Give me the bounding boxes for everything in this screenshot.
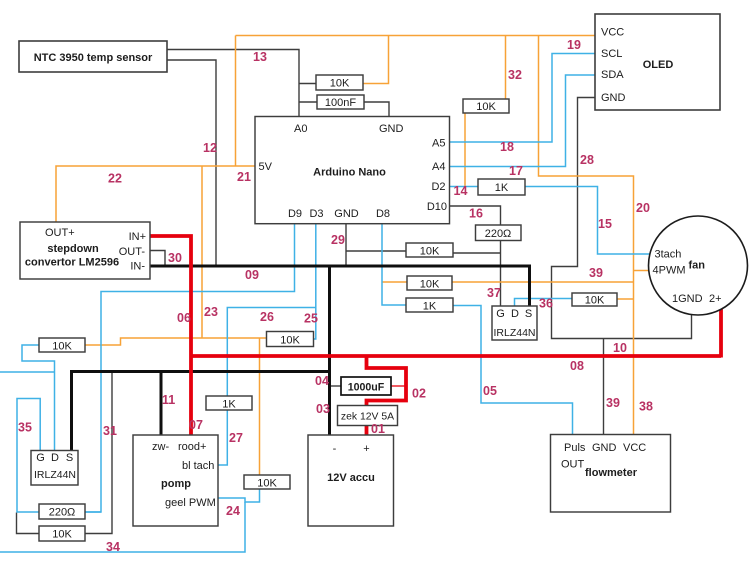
svg-text:1K: 1K [222, 399, 236, 411]
ground drop to 12V accu minus (thick black) [328, 266, 331, 435]
wire 23 orange drop from 5V line [201, 166, 203, 338]
wire 26 D9 down-left-down to 220ohm right (blue) [85, 224, 295, 512]
wire 02 +12V loop around 1000uF to zekering (thick red) [367, 356, 407, 406]
svg-text:11: 11 [162, 393, 175, 407]
svg-text:D: D [511, 308, 519, 320]
wire 29 GND branch to 10K left [346, 250, 406, 252]
svg-text:GND: GND [379, 123, 404, 135]
svg-text:1GND: 1GND [672, 293, 703, 305]
svg-text:10K: 10K [52, 341, 72, 353]
svg-text:10: 10 [613, 341, 627, 355]
svg-text:convertor LM2596: convertor LM2596 [25, 257, 119, 269]
svg-text:31: 31 [103, 424, 117, 438]
wire 32 orange rail branch to 10K top [505, 36, 507, 100]
svg-text:zek 12V 5A: zek 12V 5A [341, 412, 394, 423]
svg-text:4PWM: 4PWM [653, 265, 686, 277]
Arduino Nano U1 [255, 117, 450, 224]
svg-text:zw-: zw- [152, 441, 169, 453]
svg-text:10K: 10K [476, 101, 496, 113]
svg-text:Arduino Nano: Arduino Nano [313, 167, 386, 179]
svg-text:09: 09 [245, 268, 259, 282]
svg-text:G: G [496, 308, 505, 320]
svg-text:D9: D9 [288, 208, 302, 220]
svg-text:02: 02 [412, 387, 426, 401]
svg-text:OLED: OLED [643, 59, 674, 71]
wire orange stub 10K right to VCC vertical [617, 298, 634, 300]
svg-text:IRLZ44N: IRLZ44N [34, 469, 76, 481]
wire 04 capacitor 1000uF left lead to ground drop [331, 385, 341, 387]
wire 18 OLED SDA to A4 (blue) [450, 75, 596, 167]
svg-text:geel PWM: geel PWM [165, 497, 216, 509]
wire 12 NTC ground drop (dark) [167, 60, 216, 265]
12V accu battery [308, 435, 394, 526]
wire 19 OLED SCL to A5 (blue) [450, 54, 596, 143]
svg-text:3tach: 3tach [655, 249, 682, 261]
svg-text:D: D [51, 452, 59, 464]
resistor R14 10K (gate pulldown U3) [39, 526, 85, 541]
transistor U3 IRLZ44N (left MOSFET) [31, 451, 78, 486]
resistor R5 10K (gate pulldown U2) [406, 243, 453, 258]
svg-text:37: 37 [487, 286, 501, 300]
svg-text:39: 39 [589, 266, 603, 280]
svg-text:13: 13 [253, 50, 267, 64]
ground bus lower to source S of U3 (thick black) [72, 372, 330, 451]
svg-text:bl tach: bl tach [182, 460, 214, 472]
wire 07 stepdown IN+ down to pomp rood+ (thick red) [150, 236, 191, 435]
svg-text:220Ω: 220Ω [485, 228, 512, 240]
svg-text:100nF: 100nF [325, 97, 356, 109]
svg-text:23: 23 [204, 305, 218, 319]
svg-text:flowmeter: flowmeter [585, 467, 638, 479]
svg-text:10K: 10K [420, 279, 440, 291]
wire 39 orange 10K right to VCC vertical [452, 281, 634, 283]
svg-text:1K: 1K [495, 182, 509, 194]
svg-text:1000uF: 1000uF [348, 382, 385, 394]
wire 10K left-box to drain D of U3 (blue) [22, 345, 55, 451]
wire 37 220ohm bottom to gate G of U2 [500, 241, 502, 307]
svg-text:A5: A5 [432, 138, 445, 150]
wire 14 10K bottom down to D2 line (orange) [464, 113, 466, 187]
svg-text:S: S [525, 308, 532, 320]
wire orange rail drop to 5V line [235, 36, 237, 167]
svg-text:21: 21 [237, 170, 251, 184]
svg-text:20: 20 [636, 201, 650, 215]
fan M1 (circle) [649, 216, 748, 315]
svg-text:220Ω: 220Ω [49, 507, 76, 519]
wire Arduino bottom GND riser to bus [345, 224, 347, 265]
svg-text:22: 22 [108, 172, 122, 186]
svg-text:G: G [36, 452, 45, 464]
svg-text:GND: GND [601, 92, 626, 104]
svg-text:fan: fan [689, 260, 706, 272]
svg-text:18: 18 [500, 140, 514, 154]
svg-text:32: 32 [508, 68, 522, 82]
svg-text:14: 14 [454, 184, 468, 198]
svg-text:2+: 2+ [709, 293, 722, 305]
svg-text:10K: 10K [585, 295, 605, 307]
wire 16 D10 to 220ohm top [450, 206, 501, 225]
OLED display [595, 14, 720, 110]
svg-text:17: 17 [509, 164, 523, 178]
svg-text:VCC: VCC [623, 442, 646, 454]
svg-text:34: 34 [106, 540, 120, 554]
wire orange stub to fan 4PWM [634, 270, 650, 272]
resistor R9 10K (left, fan drain pullup) [39, 338, 85, 353]
wire 13 orange rail branch to 10K right (A0 pullup) [363, 36, 389, 84]
svg-text:D3: D3 [309, 208, 323, 220]
wire 01 zekering bottom to accu + (thick red) [365, 426, 369, 436]
wire 21/22 stepdown OUT+ to Arduino 5V [56, 166, 255, 222]
wire 06 orange run y338 from 10K left-box to 10K center [85, 338, 267, 345]
resistor R8 10K (fan tach pullup) [572, 293, 617, 307]
svg-text:01: 01 [371, 422, 385, 436]
svg-text:19: 19 [567, 38, 581, 52]
wire 30 stepdown OUT- to ground bus [150, 251, 165, 265]
svg-text:10K: 10K [257, 478, 277, 490]
capacitor C1 100nF [317, 95, 364, 109]
svg-text:GND: GND [334, 208, 359, 220]
svg-text:25: 25 [304, 312, 318, 326]
svg-text:08: 08 [570, 359, 584, 373]
wire orange drop to 10K above pomp [259, 338, 261, 475]
svg-text:-: - [333, 443, 337, 455]
resistor R12 10K (pomp PWM pullup) [244, 475, 290, 490]
svg-text:29: 29 [331, 233, 345, 247]
flowmeter sensor [551, 435, 671, 513]
svg-text:A0: A0 [294, 123, 307, 135]
svg-text:rood+: rood+ [178, 441, 206, 453]
wire capacitor 1000uF right lead (thin red) [391, 385, 406, 387]
svg-text:05: 05 [483, 384, 497, 398]
pomp M2 [133, 435, 218, 526]
wire 10 +12V bus up to fan 2+ (thick red) [719, 309, 723, 358]
resistor R13 220ohm (gate U3) [39, 504, 85, 519]
svg-text:IRLZ44N: IRLZ44N [493, 327, 535, 339]
svg-text:15: 15 [598, 217, 612, 231]
wire NTC signal to A0 (dark) [167, 50, 299, 117]
wire 15 1K right to fan 3tach (blue) [525, 187, 651, 255]
svg-text:D10: D10 [427, 201, 447, 213]
svg-text:S: S [66, 452, 73, 464]
wire 34 10K right up to ground bus (dark) [85, 372, 112, 534]
svg-text:NTC 3950 temp sensor: NTC 3950 temp sensor [34, 52, 153, 64]
wire 28 OLED GND down-left-down to fan 1GND (dark) [552, 98, 692, 339]
svg-text:OUT+: OUT+ [45, 227, 75, 239]
svg-text:GND: GND [592, 442, 617, 454]
svg-text:10K: 10K [52, 529, 72, 541]
wire 08 +12V bus (thick red) [191, 354, 721, 358]
svg-text:D2: D2 [431, 181, 445, 193]
svg-text:06: 06 [177, 311, 191, 325]
resistor R2 10K (D2 pullup) [463, 99, 509, 113]
temp sensor NTC 3950 [19, 41, 167, 72]
wire 220ohm-left node to 10K left (bottom-left, dark) [17, 513, 40, 534]
svg-text:10K: 10K [330, 78, 350, 90]
wire 36 drain D of U2 to 10K left (blue) [515, 299, 573, 307]
svg-text:03: 03 [316, 402, 330, 416]
resistor R11 1K (pomp tach series) [206, 396, 252, 411]
svg-text:SCL: SCL [601, 48, 622, 60]
wire 100nF right to Arduino top GND [364, 102, 389, 117]
wire 25 D3 down to 10K center right (blue) [314, 224, 316, 339]
svg-text:36: 36 [539, 297, 553, 311]
svg-text:SDA: SDA [601, 69, 624, 81]
resistor R4 220ohm (gate U2) [476, 225, 522, 241]
svg-text:+: + [363, 443, 369, 455]
wire D8 down to 1K left (blue) [382, 224, 406, 305]
svg-text:39: 39 [606, 396, 620, 410]
svg-text:10K: 10K [280, 335, 300, 347]
wire blue bottom rail from PWM node [0, 502, 245, 552]
wire 31 220ohm right up to D9 line (blue) [85, 511, 101, 513]
svg-text:Puls: Puls [564, 442, 586, 454]
wire 27 pomp bl tach to 1K bottom (blue) [218, 410, 227, 465]
svg-text:24: 24 [226, 504, 240, 518]
transistor U2 IRLZ44N (right MOSFET) [492, 306, 537, 340]
svg-text:12: 12 [203, 141, 217, 155]
svg-text:35: 35 [18, 421, 32, 435]
wire stub node A0 to 10K left [299, 83, 316, 85]
svg-text:27: 27 [229, 431, 243, 445]
svg-text:26: 26 [260, 310, 274, 324]
svg-text:A4: A4 [432, 161, 445, 173]
wire 39 fan GND branch to flowmeter GND [603, 339, 605, 435]
wire 05 1K right to flowmeter Puls OUT (blue) [453, 306, 573, 435]
svg-text:stepdown: stepdown [47, 243, 99, 255]
wire 5V orange rail (top) [236, 35, 596, 37]
svg-text:OUT: OUT [561, 459, 585, 471]
resistor R10 10K (center) [267, 332, 314, 347]
svg-text:28: 28 [580, 153, 594, 167]
wire 10K right to gate vertical (dark) [453, 252, 501, 254]
fuse zek 12V 5A [338, 406, 398, 426]
svg-text:5V: 5V [259, 161, 273, 173]
wire stub node A0 to 100nF left [299, 101, 317, 103]
resistor R6 10K (D8 pullup) [407, 276, 452, 291]
svg-text:IN+: IN+ [129, 231, 146, 243]
resistor R7 1K (D8 series) [406, 298, 453, 313]
svg-text:30: 30 [168, 251, 182, 265]
wire 20 orange rail to fan/flowmeter VCC vertical [539, 36, 634, 435]
resistor R1 10K (A0 pullup) [316, 75, 363, 90]
wire blue stub from left edge to drain vertical [0, 371, 55, 373]
svg-text:07: 07 [189, 418, 203, 432]
svg-text:D8: D8 [376, 208, 390, 220]
wire orange D8 pullup left of 10K [382, 281, 407, 283]
stepdown convertor LM2596 U4 [20, 222, 150, 279]
wire 35 gate G of U3 loop to 220ohm left (blue) [17, 399, 40, 513]
svg-text:04: 04 [315, 374, 329, 388]
svg-text:IN-: IN- [130, 261, 145, 273]
wire 11 pomp zw- to ground bus (thick black) [160, 372, 163, 436]
svg-text:pomp: pomp [161, 478, 191, 490]
wire 27 1K top to D3 vertical (blue) [227, 308, 315, 397]
wire 14 D2 to 1K left (blue) [450, 186, 479, 188]
wire 24 pomp geel PWM to 10K bottom (blue) [218, 489, 260, 502]
capacitor C2 1000uF [341, 377, 391, 395]
svg-text:12V accu: 12V accu [327, 472, 375, 484]
svg-text:10K: 10K [420, 246, 440, 258]
svg-text:VCC: VCC [601, 27, 624, 39]
resistor R3 1K (D2 series) [478, 179, 525, 195]
svg-text:1K: 1K [423, 301, 437, 313]
ground bus upper (thick black) [150, 266, 530, 306]
svg-text:16: 16 [469, 207, 483, 221]
svg-text:OUT-: OUT- [119, 246, 146, 258]
svg-text:38: 38 [639, 400, 653, 414]
